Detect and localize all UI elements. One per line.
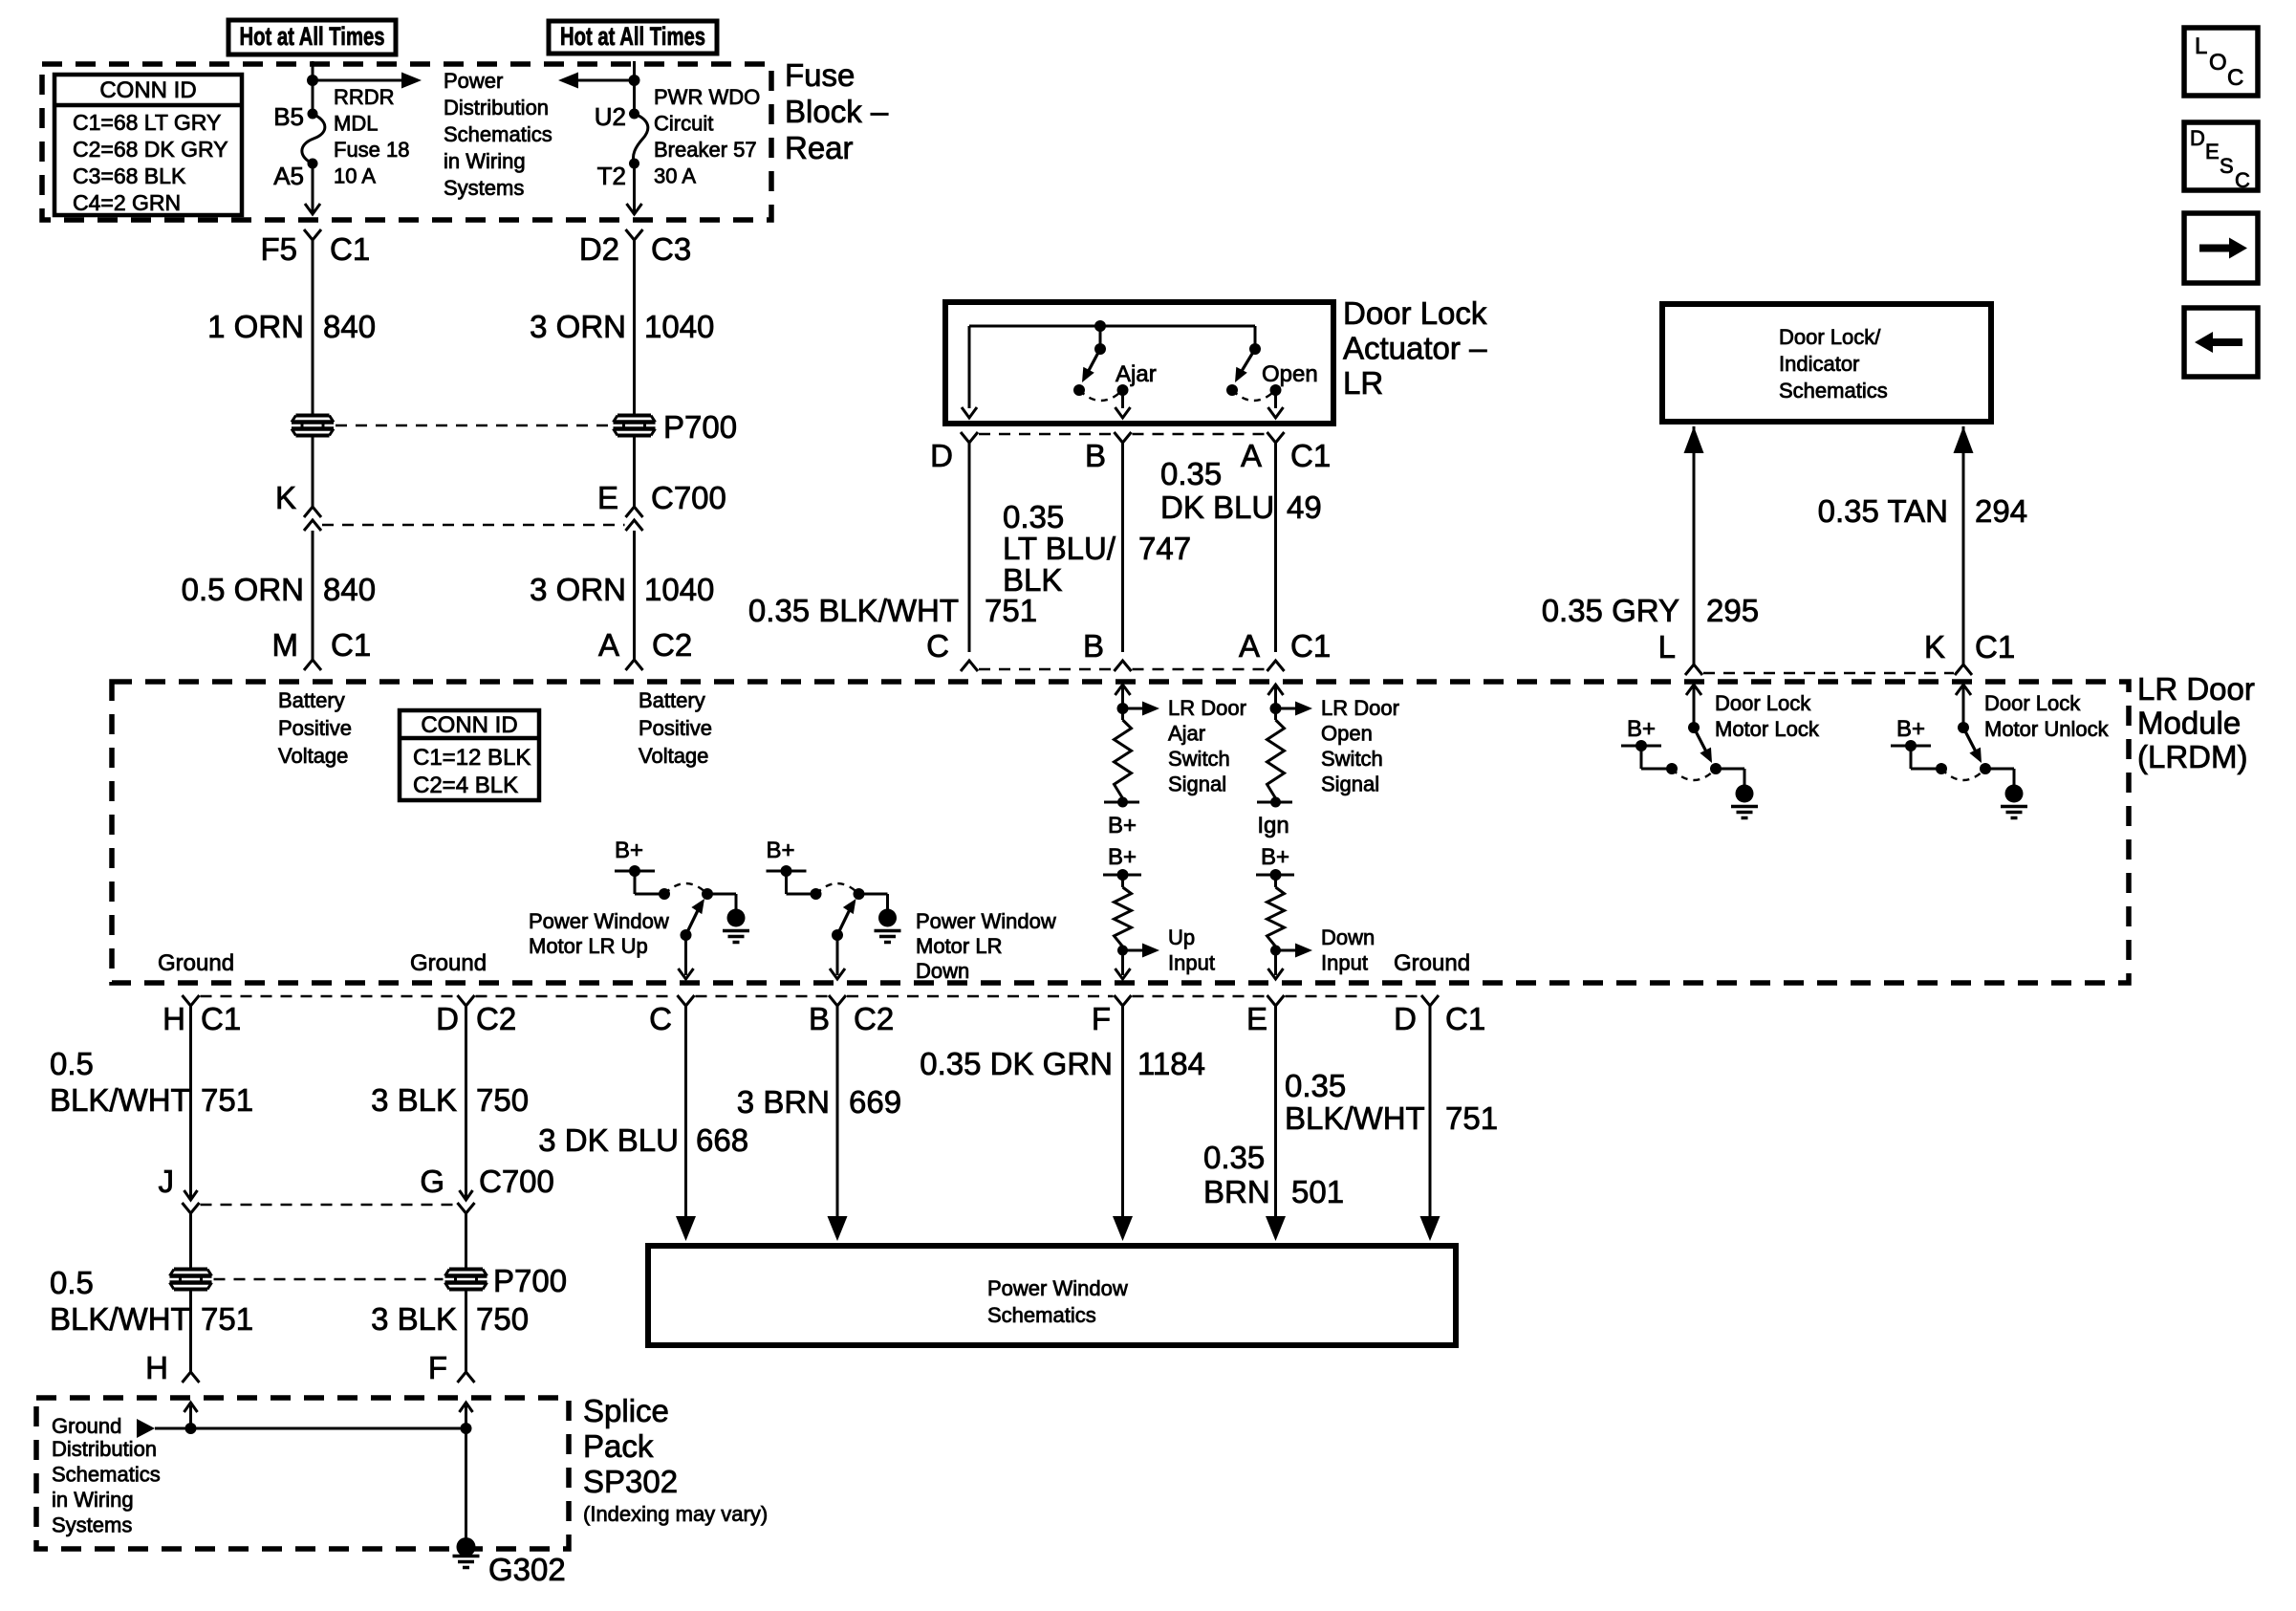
connector pin F5 C1 below fuse block (304, 229, 321, 240)
wire: H to P700 (189, 1213, 192, 1269)
svg-text:3 BLK: 3 BLK (371, 1082, 457, 1118)
connector row into LRDM: pins C B A C1 (961, 661, 978, 671)
svg-text:in Wiring: in Wiring (52, 1488, 134, 1512)
svg-text:CONN ID: CONN ID (421, 712, 517, 738)
connector C700 pin E (626, 507, 643, 517)
svg-text:Ajar: Ajar (1168, 722, 1205, 746)
svg-text:Distribution: Distribution (52, 1437, 157, 1461)
svg-text:Ajar: Ajar (1116, 361, 1157, 387)
svg-text:L: L (2195, 33, 2207, 59)
C700 tie line (322, 524, 625, 527)
svg-text:C1: C1 (331, 627, 371, 663)
svg-text:B+: B+ (1896, 716, 1925, 742)
svg-text:Door Lock: Door Lock (1984, 691, 2081, 715)
svg-text:in Wiring: in Wiring (444, 149, 526, 173)
svg-text:Positive: Positive (639, 716, 712, 740)
connector pin A C2 into LRDM (626, 660, 643, 670)
svg-text:S: S (2220, 154, 2234, 178)
svg-text:Open: Open (1262, 361, 1318, 387)
wire: below P700 to C700 (right) (633, 436, 636, 507)
svg-text:CONN ID: CONN ID (99, 77, 196, 103)
icon box: DESC (2184, 122, 2258, 190)
svg-text:1184: 1184 (1137, 1046, 1205, 1081)
connector pin M C1 into LRDM (304, 660, 321, 670)
svg-text:Ground: Ground (410, 950, 487, 976)
box: Hot at All Times (right) (549, 21, 717, 54)
P700 bottom tie line (214, 1278, 444, 1281)
wire: 0.5 BLK/WHT 751 lower segment (189, 1290, 192, 1372)
box: Door Lock/Indicator Schematics (1662, 304, 1991, 422)
svg-text:K: K (275, 480, 296, 515)
svg-text:C3: C3 (651, 231, 691, 267)
wire: 0.35 TAN 294 up to Door Lock/Indicator box (1962, 453, 1965, 664)
svg-text:Battery: Battery (639, 688, 705, 712)
svg-text:B+: B+ (615, 838, 643, 863)
svg-text:RRDR: RRDR (334, 85, 395, 109)
svg-text:1040: 1040 (644, 572, 714, 607)
svg-text:J: J (159, 1164, 175, 1199)
wire: fuse output down to fuse block edge (312, 163, 314, 214)
svg-text:Ground: Ground (158, 950, 234, 976)
switch: door lock motor (1956, 685, 1971, 695)
svg-text:DK BLU: DK BLU (1160, 490, 1274, 525)
wire: fuse block feed from hot bus (left) (312, 61, 314, 114)
svg-text:0.35 BLK/WHT: 0.35 BLK/WHT (748, 593, 959, 628)
svg-text:Schematics: Schematics (987, 1303, 1096, 1327)
svg-text:Open: Open (1321, 722, 1373, 746)
icon box: arrow right (2184, 213, 2258, 283)
svg-text:LR Door: LR Door (1321, 696, 1399, 720)
C700 tie line (bottom) (201, 1204, 457, 1207)
node: splice junction H (185, 1423, 197, 1434)
svg-text:Input: Input (1168, 951, 1215, 975)
svg-text:B+: B+ (1108, 844, 1137, 870)
svg-text:501: 501 (1291, 1174, 1344, 1209)
wire: arrow to Power Distribution Schematics (313, 79, 402, 82)
svg-text:B+: B+ (1108, 813, 1137, 838)
svg-text:LT BLU/: LT BLU/ (1003, 531, 1116, 566)
svg-text:751: 751 (201, 1301, 253, 1337)
svg-text:PWR WDO: PWR WDO (654, 85, 760, 109)
svg-text:294: 294 (1975, 493, 2027, 529)
svg-text:P700: P700 (493, 1263, 567, 1298)
svg-text:751: 751 (985, 593, 1037, 628)
svg-text:BLK/WHT: BLK/WHT (50, 1301, 190, 1337)
svg-text:Schematics: Schematics (1779, 379, 1888, 403)
switch: door lock motor (1686, 685, 1701, 695)
svg-text:Ground: Ground (1394, 950, 1470, 976)
box: Door Lock Actuator - LR (945, 302, 1333, 424)
wire: 0.5 BLK/WHT 751 upper segment (pin H) (189, 1006, 192, 1200)
svg-text:D: D (930, 438, 953, 473)
P700 tie line (336, 425, 612, 427)
svg-text:49: 49 (1287, 490, 1322, 525)
wire: 0.35 BLK/WHT 751 (pin D to LRDM pin C) (968, 443, 971, 652)
svg-text:3 ORN: 3 ORN (530, 309, 626, 344)
svg-text:LR Door: LR Door (1168, 696, 1246, 720)
svg-text:1040: 1040 (644, 309, 714, 344)
svg-text:BLK/WHT: BLK/WHT (50, 1082, 190, 1118)
node: rail junction (1094, 320, 1106, 332)
svg-text:3 DK BLU: 3 DK BLU (538, 1122, 679, 1158)
svg-text:Systems: Systems (444, 176, 524, 200)
connector pin D2 C3 below fuse block (626, 229, 643, 240)
svg-text:Schematics: Schematics (444, 122, 552, 146)
svg-text:Systems: Systems (52, 1513, 132, 1537)
svg-text:C2=68 DK GRY: C2=68 DK GRY (73, 137, 228, 162)
wire: 0.35 LT BLU/BLK 747 (pin B) (1121, 443, 1124, 652)
svg-text:0.35: 0.35 (1003, 499, 1064, 534)
svg-text:840: 840 (323, 309, 376, 344)
svg-text:D: D (436, 1001, 459, 1036)
svg-text:0.35 TAN: 0.35 TAN (1818, 493, 1948, 529)
svg-text:Down: Down (1321, 925, 1375, 949)
svg-text:A: A (598, 627, 619, 663)
svg-text:Positive: Positive (278, 716, 352, 740)
svg-text:3 ORN: 3 ORN (530, 572, 626, 607)
svg-text:SP302: SP302 (583, 1464, 678, 1499)
connector row below LRDM: H C1 / D C2 / C / B C2 / F / E / D C1 (183, 995, 200, 1006)
svg-text:0.5: 0.5 (50, 1265, 94, 1300)
wire: below P700 to C700 (left) (312, 436, 314, 507)
svg-text:Circuit: Circuit (654, 112, 713, 136)
wire: breaker output down to fuse block edge (633, 163, 636, 214)
svg-text:B: B (1083, 628, 1104, 664)
wire: 0.5 ORN 840 segment (312, 531, 314, 660)
svg-text:3 BLK: 3 BLK (371, 1301, 457, 1337)
svg-text:669: 669 (849, 1084, 901, 1120)
svg-text:0.5: 0.5 (50, 1046, 94, 1081)
svg-text:Hot at All Times: Hot at All Times (560, 22, 705, 51)
svg-text:F: F (1092, 1001, 1111, 1036)
connector row below actuator: pins D B A C1 (961, 432, 978, 443)
svg-text:0.5 ORN: 0.5 ORN (182, 572, 304, 607)
svg-text:Motor LR Up: Motor LR Up (529, 934, 648, 958)
svg-text:Voltage: Voltage (639, 744, 708, 768)
wire: 0.35 GRY 295 up to Door Lock/Indicator box (1693, 453, 1696, 664)
arrow: splice to pin F (465, 1405, 467, 1428)
svg-text:LR: LR (1343, 365, 1383, 401)
node: junction on wire F5 feed (307, 75, 318, 86)
wire: 0.35 BRN 501 (pin E) down to Power Window Schematics (1274, 1006, 1277, 1235)
svg-text:751: 751 (1445, 1100, 1498, 1136)
svg-text:C1: C1 (1445, 1001, 1485, 1036)
svg-text:A: A (1241, 438, 1262, 473)
svg-text:Ground: Ground (52, 1414, 121, 1438)
svg-text:747: 747 (1138, 531, 1191, 566)
wire: actuator internal rail (969, 325, 1255, 328)
wire: 0.35 DK BLU 49 (pin A) (1274, 443, 1277, 652)
svg-text:F5: F5 (260, 231, 297, 267)
svg-text:C4=2 GRN: C4=2 GRN (73, 190, 181, 215)
svg-text:C1: C1 (1290, 628, 1331, 664)
svg-text:G: G (420, 1164, 444, 1199)
svg-text:BRN: BRN (1203, 1174, 1270, 1209)
svg-text:C1=68 LT GRY: C1=68 LT GRY (73, 110, 221, 135)
svg-text:G302: G302 (488, 1552, 566, 1587)
wire: 3 ORN 1040 lower segment (633, 531, 636, 660)
svg-text:B+: B+ (1261, 844, 1289, 870)
CONN ID table (LRDM) (400, 710, 539, 800)
svg-text:C: C (2227, 65, 2243, 91)
svg-text:M: M (272, 627, 299, 663)
svg-text:Actuator –: Actuator – (1343, 331, 1487, 366)
svg-text:Motor Lock: Motor Lock (1715, 717, 1820, 741)
svg-text:Switch: Switch (1168, 747, 1230, 771)
svg-text:Door Lock: Door Lock (1343, 295, 1487, 331)
inline connector P700 (left grommet) (296, 414, 330, 418)
svg-text:Fuse 18: Fuse 18 (334, 138, 410, 162)
svg-text:Motor Unlock: Motor Unlock (1984, 717, 2110, 741)
svg-text:Indicator: Indicator (1779, 352, 1859, 376)
svg-text:L: L (1658, 629, 1676, 664)
svg-text:C2=4 BLK: C2=4 BLK (413, 773, 518, 798)
svg-text:1 ORN: 1 ORN (207, 309, 304, 344)
svg-text:C2: C2 (854, 1001, 894, 1036)
svg-text:Door Lock/: Door Lock/ (1779, 325, 1881, 349)
box: Splice Pack SP302 dashed enclosure (36, 1398, 569, 1549)
svg-text:Power Window: Power Window (916, 909, 1056, 933)
svg-text:840: 840 (323, 572, 376, 607)
svg-text:750: 750 (476, 1301, 529, 1337)
svg-text:Schematics: Schematics (52, 1463, 161, 1487)
svg-text:Down: Down (916, 959, 969, 983)
svg-text:C: C (926, 628, 949, 664)
icon box: arrow left (2184, 308, 2258, 377)
svg-text:Block –: Block – (785, 94, 889, 129)
svg-text:Voltage: Voltage (278, 744, 348, 768)
svg-text:D2: D2 (579, 231, 619, 267)
wire: circuit breaker feed from hot bus (right) (633, 61, 636, 114)
svg-text:Input: Input (1321, 951, 1368, 975)
signal: LR Door Ajar Switch Signal resistor (1116, 685, 1131, 695)
wire: 0.35 DK GRN 1184 (pin F) down to Power Window Schematics (1121, 1006, 1124, 1235)
Fuse Block - Rear dashed enclosure (42, 64, 771, 220)
svg-text:(LRDM): (LRDM) (2137, 739, 2247, 774)
svg-text:Hot at All Times: Hot at All Times (240, 22, 385, 51)
wire: 0.35 BLK/WHT 751 (pin D) down to Power Window Schematics (1429, 1006, 1432, 1235)
svg-text:Splice: Splice (583, 1393, 669, 1428)
svg-text:C: C (2235, 168, 2250, 192)
wire: 3 BRN 669 (pin B) down to Power Window Schematics (836, 1006, 839, 1235)
wire: arrow to Power Distribution Schematics (left-pointing) (577, 79, 635, 82)
svg-text:C2: C2 (476, 1001, 516, 1036)
box: Power Window Schematics (648, 1246, 1456, 1345)
connector row into LRDM: pins L K C1 (1685, 664, 1702, 675)
svg-text:A5: A5 (273, 162, 304, 190)
wire: G to P700 (465, 1213, 467, 1269)
svg-text:3 BRN: 3 BRN (737, 1084, 830, 1120)
connector C700 pin K (304, 507, 321, 517)
svg-text:A: A (1239, 628, 1260, 664)
svg-text:Switch: Switch (1321, 747, 1383, 771)
svg-text:Rear: Rear (785, 130, 854, 165)
svg-text:H: H (162, 1001, 185, 1036)
node: junction on breaker feed (629, 75, 640, 86)
svg-text:Distribution: Distribution (444, 96, 549, 120)
svg-text:D: D (1394, 1001, 1417, 1036)
wire: 3 BLK 750 upper segment (pin D) (465, 1006, 467, 1200)
svg-text:B+: B+ (1627, 716, 1656, 742)
svg-text:Fuse: Fuse (785, 57, 855, 93)
svg-text:C3=68 BLK: C3=68 BLK (73, 163, 186, 188)
svg-text:Ign: Ign (1257, 813, 1289, 838)
inline connector P700 bottom (right grommet) (449, 1268, 483, 1272)
box: LR Door Module (LRDM) dashed enclosure (112, 682, 2129, 983)
svg-text:E: E (2205, 140, 2220, 163)
node: splice junction F (461, 1423, 472, 1434)
svg-text:O: O (2209, 50, 2227, 76)
svg-text:H: H (145, 1350, 168, 1385)
svg-text:295: 295 (1706, 593, 1759, 628)
splice rail with arrow (137, 1419, 155, 1438)
switch: door open contact (actuator) (1254, 326, 1257, 349)
svg-text:B: B (1085, 438, 1106, 473)
svg-text:0.35: 0.35 (1160, 456, 1222, 491)
svg-text:C1: C1 (330, 231, 370, 267)
svg-text:(Indexing may vary): (Indexing may vary) (583, 1502, 768, 1526)
svg-text:Power: Power (444, 69, 503, 93)
svg-text:Up: Up (1168, 925, 1195, 949)
svg-text:0.35: 0.35 (1203, 1140, 1265, 1175)
CONN ID table (fuse block) (54, 75, 242, 215)
svg-text:Pack: Pack (583, 1428, 654, 1464)
svg-text:C1: C1 (1290, 438, 1331, 473)
svg-text:E: E (1246, 1001, 1267, 1036)
svg-text:BLK/WHT: BLK/WHT (1285, 1100, 1425, 1136)
svg-text:C: C (649, 1001, 672, 1036)
wire: 3 DK BLU 668 (pin C) down to Power Window Schematics (684, 1006, 687, 1224)
svg-text:E: E (597, 480, 618, 515)
svg-text:Signal: Signal (1321, 773, 1379, 796)
svg-text:C700: C700 (651, 480, 726, 515)
svg-text:LR Door: LR Door (2137, 671, 2255, 707)
svg-text:30 A: 30 A (654, 164, 696, 188)
svg-text:751: 751 (201, 1082, 253, 1118)
svg-text:0.35: 0.35 (1285, 1068, 1346, 1103)
svg-text:P700: P700 (663, 409, 737, 445)
svg-text:U2: U2 (595, 102, 626, 131)
inline connector P700 bottom (left grommet) (174, 1268, 207, 1272)
circuit breaker 57: PWR WDO 30 A (629, 109, 639, 120)
svg-text:Power Window: Power Window (987, 1276, 1128, 1300)
svg-text:MDL: MDL (334, 112, 378, 136)
svg-text:F: F (428, 1350, 447, 1385)
svg-text:C1=12 BLK: C1=12 BLK (413, 745, 531, 771)
svg-text:Breaker 57: Breaker 57 (654, 138, 757, 162)
svg-text:Battery: Battery (278, 688, 345, 712)
svg-text:Motor LR: Motor LR (916, 934, 1002, 958)
wire: splice to G302 (465, 1428, 467, 1538)
box: Hot at All Times (left) (228, 20, 396, 54)
svg-text:K: K (1924, 629, 1945, 664)
svg-text:0.35 DK GRN: 0.35 DK GRN (920, 1046, 1113, 1081)
wire: 3 BLK 750 lower segment (465, 1290, 467, 1372)
svg-text:B5: B5 (273, 102, 304, 131)
svg-text:750: 750 (476, 1082, 529, 1118)
svg-text:Signal: Signal (1168, 773, 1226, 796)
wire: 3 ORN 1040 segment (633, 240, 636, 415)
svg-text:C1: C1 (1975, 629, 2015, 664)
switch: door ajar contact (actuator) (1099, 326, 1102, 349)
icon box: LOC (2184, 28, 2258, 96)
svg-text:D: D (2190, 126, 2205, 150)
arrow: splice to pin H (189, 1405, 192, 1428)
svg-text:B: B (809, 1001, 830, 1036)
svg-text:B+: B+ (766, 838, 794, 863)
svg-text:Module: Module (2137, 706, 2241, 741)
svg-text:0.35 GRY: 0.35 GRY (1542, 593, 1679, 628)
svg-text:10 A: 10 A (334, 164, 376, 188)
svg-text:C1: C1 (201, 1001, 241, 1036)
inline connector P700 (right grommet) (617, 414, 651, 418)
svg-text:C2: C2 (652, 627, 692, 663)
signal: LR Door Open Switch Signal resistor (1268, 685, 1284, 695)
svg-text:C700: C700 (479, 1164, 554, 1199)
svg-text:668: 668 (696, 1122, 748, 1158)
svg-text:Power Window: Power Window (529, 909, 669, 933)
ground G302 symbol (457, 1537, 476, 1557)
wire: 1 ORN 840 segment (312, 240, 314, 415)
svg-text:T2: T2 (597, 162, 626, 190)
svg-text:Door Lock: Door Lock (1715, 691, 1811, 715)
fuse F18: RRDR MDL Fuse 18 10 A (308, 109, 318, 120)
